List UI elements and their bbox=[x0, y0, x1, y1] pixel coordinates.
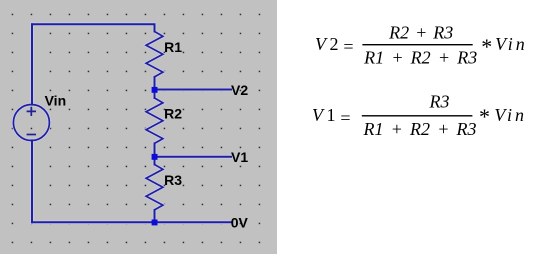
svg-text:Vin: Vin bbox=[495, 34, 528, 54]
svg-text:R1 + R2 + R3: R1 + R2 + R3 bbox=[362, 119, 476, 139]
svg-text:R1 + R2 + R3: R1 + R2 + R3 bbox=[363, 47, 477, 67]
resistor R3 bbox=[146, 165, 163, 210]
wire left rail upper bbox=[31, 24, 33, 104]
svg-text:Vin: Vin bbox=[494, 105, 527, 125]
wire top rail bbox=[32, 24, 155, 31]
wire node V1 to R3 bbox=[154, 157, 156, 165]
svg-text:V: V bbox=[312, 105, 325, 125]
svg-text:V: V bbox=[315, 34, 328, 54]
wire R3 to node 0V bbox=[154, 210, 156, 222]
svg-text:=: = bbox=[340, 108, 350, 128]
wire node V1 stub to label bbox=[155, 156, 232, 158]
equation V2 formula bbox=[315, 23, 528, 68]
node V1 junction bbox=[152, 154, 158, 160]
svg-text:R2 + R3: R2 + R3 bbox=[388, 23, 453, 43]
node V2 junction bbox=[152, 87, 158, 93]
voltage source Vin bbox=[13, 105, 49, 141]
wire bottom rail bbox=[32, 221, 155, 223]
wire R2 to node V1 bbox=[154, 143, 156, 156]
resistor R1 bbox=[146, 32, 163, 77]
svg-text:R3: R3 bbox=[429, 92, 450, 112]
wire halos bbox=[13, 24, 231, 222]
wire R1 to node V2 bbox=[154, 77, 156, 90]
wire node 0V stub to label bbox=[155, 221, 232, 223]
svg-text:=: = bbox=[343, 36, 353, 56]
svg-text:2: 2 bbox=[330, 34, 339, 54]
svg-text:1: 1 bbox=[327, 105, 336, 125]
svg-text:*: * bbox=[481, 34, 492, 59]
svg-text:*: * bbox=[479, 104, 490, 129]
wire left rail lower bbox=[31, 140, 33, 222]
resistor R2 bbox=[146, 98, 163, 143]
schematic gray panel bbox=[0, 0, 277, 254]
equation V1 formula bbox=[312, 92, 527, 139]
node 0V junction bbox=[152, 220, 158, 226]
wire node V2 to R2 bbox=[154, 90, 156, 98]
wire node V2 stub to label bbox=[155, 89, 232, 91]
